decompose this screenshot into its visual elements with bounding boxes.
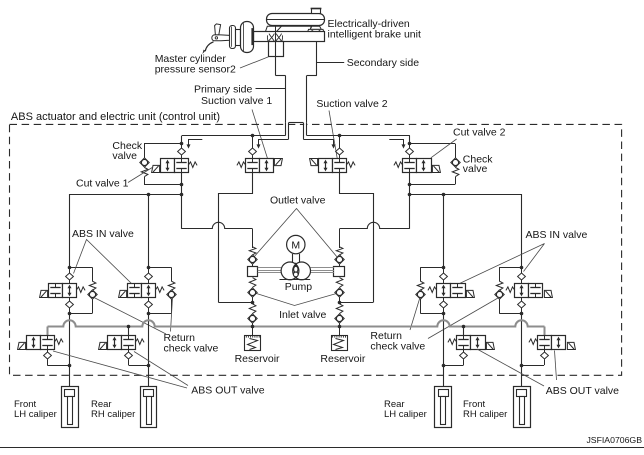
- junction cut valve 2 bottom: [408, 183, 412, 187]
- ABS IN valve V1 ports and return check: [66, 266, 98, 316]
- leader ABS OUT valve left: [53, 351, 188, 388]
- pushrod rod and pivot boss: [212, 35, 230, 41]
- svg-text:JSFIA0706GB: JSFIA0706GB: [586, 435, 642, 445]
- caliper line front RH: [521, 313, 523, 386]
- unit lower body outline: [275, 42, 317, 123]
- check valve C1 (cut valve 1 bypass): [140, 144, 149, 185]
- ABS OUT valve V1 output: [44, 350, 72, 368]
- leader ABS OUT valve right: [477, 349, 557, 386]
- caliper line rear LH: [443, 313, 445, 386]
- reservoir-to-sensor feed line: [275, 26, 277, 42]
- junction suction valve 2 tap: [338, 134, 342, 138]
- svg-text:ABS IN valve: ABS IN valve: [72, 228, 134, 240]
- ABS OUT valve V3 body: [448, 336, 494, 350]
- junction suction valve 1 tap: [251, 134, 255, 138]
- leader Outlet valve: [254, 209, 338, 258]
- ABS IN valve V2 ports and return check: [145, 266, 177, 316]
- label ABS actuator and electric unit (control unit): [11, 111, 220, 123]
- leader Secondary side: [317, 62, 344, 64]
- pressure sensor box: [269, 42, 284, 57]
- cut valve 2 output wire: [409, 173, 411, 229]
- cut valve 1 to outlet valve wire: [182, 222, 253, 228]
- flow arrow at cut valve 1: [187, 140, 203, 149]
- port check diamond above suction valve 2: [336, 136, 344, 159]
- svg-text:LH caliper: LH caliper: [384, 409, 427, 420]
- label Outlet valve: [270, 194, 326, 206]
- label Check valve (right): [463, 153, 494, 175]
- reservoir center sump: [276, 26, 312, 32]
- ABS OUT valve V4 output: [520, 350, 549, 368]
- label Cut valve 1: [76, 178, 129, 190]
- junction reservoir 2 on return bus: [338, 325, 342, 329]
- label Rear LH caliper: [384, 399, 427, 420]
- pump port block right: [334, 267, 345, 277]
- junction suction feed right: [338, 301, 342, 305]
- junction cut valve 1 top: [180, 142, 184, 146]
- check valve bypass top wire (cut valve 2): [410, 143, 455, 145]
- cut valve 1 solenoid valve body: [152, 159, 198, 173]
- svg-text:Reservoir: Reservoir: [320, 353, 365, 365]
- secondary header upper wall: [307, 135, 410, 137]
- svg-text:Cut valve 1: Cut valve 1: [76, 178, 129, 190]
- ABS IN valve 3 supply drop: [443, 194, 445, 267]
- outlet valve check O2: [335, 229, 344, 267]
- svg-text:ABS OUT valve: ABS OUT valve: [191, 385, 264, 397]
- ABS OUT valve V4 body: [529, 336, 576, 350]
- booster end cap (dark): [251, 28, 253, 45]
- label Electrically-driven intelligent brake unit: [328, 18, 421, 41]
- pump piston passages right: [310, 268, 333, 273]
- label Master cylinder pressure sensor2: [155, 53, 236, 76]
- reservoir check R2: [335, 304, 344, 336]
- label Inlet valve: [279, 309, 326, 321]
- leader to pressure sensor: [240, 57, 268, 68]
- flow arrow into suction valve 1: [257, 139, 261, 148]
- motor shaft: [293, 254, 300, 263]
- return manifold gray bus: [48, 320, 545, 335]
- ABS IN valve 2 supply drop: [148, 194, 150, 267]
- motor M1: [287, 235, 305, 253]
- check valve bypass bottom wire (cut valve 2): [410, 184, 455, 186]
- junction left bus / ABS IN 2: [147, 193, 151, 197]
- svg-text:Inlet valve: Inlet valve: [279, 309, 326, 321]
- label Suction valve 1: [201, 95, 272, 107]
- label Reservoir 1: [235, 353, 280, 365]
- svg-text:Reservoir: Reservoir: [235, 353, 280, 365]
- svg-text:ABS OUT valve: ABS OUT valve: [546, 385, 619, 397]
- svg-text:check valve: check valve: [164, 343, 219, 355]
- suction jog link right: [339, 302, 373, 304]
- caliper rear RH: [141, 387, 157, 428]
- booster washer plate: [230, 26, 236, 49]
- caliper rear LH: [435, 387, 452, 428]
- curved leader hook to clevis: [202, 42, 213, 54]
- check valve bypass top wire (cut valve 1): [144, 143, 182, 145]
- booster spacer: [236, 30, 241, 46]
- label Cut valve 2: [453, 127, 506, 139]
- label Check valve (left): [112, 140, 143, 162]
- ABS IN valve 1 supply drop: [69, 194, 71, 267]
- pump eccentric cam: [292, 262, 299, 279]
- suction valve 1 output jog wire: [219, 173, 253, 303]
- svg-text:valve: valve: [463, 163, 488, 175]
- pump base line: [280, 279, 311, 281]
- caliper line front LH: [69, 313, 71, 386]
- leader ABS IN valve right: [460, 244, 545, 284]
- ABS IN valve 4 supply drop: [521, 194, 523, 267]
- svg-text:Suction valve 1: Suction valve 1: [201, 95, 272, 107]
- left pressure bus: [70, 194, 182, 196]
- port check diamond above cut valve 2: [406, 144, 414, 159]
- caliper line rear RH: [148, 313, 150, 386]
- leader Return check valve right: [410, 298, 499, 339]
- ABS IN valve V3 body: [428, 284, 474, 298]
- label ABS IN valve (right): [526, 229, 588, 241]
- junction right bus / ABS IN 3: [442, 193, 446, 197]
- port check diamond above cut valve 1: [178, 144, 186, 159]
- junction cut valve 2 top: [408, 142, 412, 146]
- pump chamber left: [281, 262, 310, 280]
- suction jog link left: [219, 302, 253, 304]
- figure bottom border: [0, 447, 644, 449]
- pump chamber right: [293, 262, 311, 280]
- leader Suction valve 2: [329, 111, 338, 161]
- leader Cut valve 2: [431, 139, 457, 158]
- caliper front RH: [514, 387, 531, 428]
- label Suction valve 2: [316, 98, 387, 110]
- primary pipe walls: [286, 123, 289, 140]
- check valve bypass bottom wire (cut valve 1): [144, 184, 182, 186]
- svg-text:Suction valve 2: Suction valve 2: [316, 98, 387, 110]
- secondary inlet funnel: [307, 29, 324, 33]
- label Front RH caliper: [463, 399, 507, 420]
- ABS IN valve V1 body: [40, 284, 86, 298]
- suction valve 2 solenoid valve body: [310, 159, 355, 173]
- caliper front LH: [62, 387, 79, 428]
- label ABS IN valve (left): [72, 228, 134, 240]
- label Return check valve (left): [164, 332, 219, 355]
- cut valve 1 output wire: [181, 173, 183, 229]
- label Return check valve (right): [370, 330, 425, 353]
- secondary pipe walls: [304, 123, 307, 140]
- port check diamond above suction valve 1: [249, 136, 257, 159]
- ABS IN valve V3 ports and return check: [416, 266, 448, 316]
- svg-text:ABS IN valve: ABS IN valve: [526, 229, 588, 241]
- junction reservoir 1 on return bus: [251, 325, 255, 329]
- reservoir right mount foot: [310, 26, 321, 29]
- reservoir filler cap: [311, 9, 322, 14]
- reservoir 2: [332, 335, 348, 350]
- ABS OUT valve V1 body: [18, 336, 64, 350]
- svg-text:Cut valve 2: Cut valve 2: [453, 127, 506, 139]
- check valve C2 (cut valve 2 bypass): [451, 144, 460, 185]
- cut valve 2 solenoid valve body: [394, 159, 440, 173]
- pump piston passages left: [258, 268, 281, 273]
- pump port block left: [248, 267, 258, 277]
- svg-text:RH caliper: RH caliper: [91, 409, 135, 420]
- ABS OUT valve V2 output: [125, 350, 151, 368]
- brake unit fluid reservoir tank: [266, 14, 325, 26]
- flow arrow into suction valve 2: [332, 139, 336, 148]
- ABS IN valve V4 body: [506, 284, 553, 298]
- reservoir left mount foot: [265, 26, 284, 33]
- ABS OUT valve V2 body: [99, 336, 145, 350]
- leader Return check valve left: [94, 298, 173, 335]
- svg-text:check valve: check valve: [370, 341, 425, 353]
- leader Primary side: [256, 88, 286, 90]
- cut valve 2 to outlet valve wire: [340, 222, 410, 228]
- svg-text:M: M: [291, 240, 300, 252]
- pushrod clevis flag: [215, 24, 221, 35]
- ABS OUT valve 3 supply drop: [462, 325, 466, 336]
- label Secondary side: [347, 57, 420, 69]
- svg-text:Primary side: Primary side: [194, 84, 253, 96]
- secondary header lower wall: [303, 139, 333, 141]
- ABS IN valve V2 body: [119, 284, 165, 298]
- inlet valve check I2: [335, 278, 344, 303]
- inlet valve check I1: [248, 278, 257, 303]
- primary seal boots (crossed curves): [267, 34, 282, 42]
- leader ABS IN valve left: [74, 240, 132, 284]
- flow arrow at cut valve 2: [389, 140, 405, 149]
- primary header upper wall: [182, 135, 286, 137]
- master cylinder body (horizontal barrel): [254, 32, 325, 42]
- label Front LH caliper: [14, 399, 57, 420]
- suction valve 1 solenoid valve body: [237, 159, 283, 173]
- cut valve 2 feed drop: [409, 136, 411, 144]
- svg-text:ABS actuator and electric unit: ABS actuator and electric unit (control …: [11, 111, 220, 123]
- ABS OUT valve V3 output: [442, 350, 468, 368]
- svg-text:Outlet valve: Outlet valve: [270, 194, 326, 206]
- junction suction feed left: [251, 301, 255, 305]
- label Primary side: [194, 84, 253, 96]
- suction valve 2 output jog wire: [340, 173, 374, 303]
- pipe channel white mask: [286, 120, 306, 128]
- ABS IN valve V4 ports and return check: [495, 266, 526, 316]
- svg-text:RH caliper: RH caliper: [463, 409, 507, 420]
- leader Cut valve 1: [128, 167, 153, 183]
- leader Suction valve 1: [252, 110, 268, 161]
- label ABS OUT valve (left): [191, 385, 264, 397]
- label ABS OUT valve (right): [546, 385, 619, 397]
- right pressure bus: [410, 194, 522, 196]
- svg-text:Pump: Pump: [285, 281, 313, 293]
- junction cut valve 1 bottom: [180, 183, 184, 187]
- junction right bus / cut valve 2: [408, 193, 412, 197]
- primary header lower wall: [258, 139, 288, 141]
- outlet valve check O1: [248, 229, 257, 267]
- label Rear RH caliper: [91, 399, 135, 420]
- reservoir 1: [245, 335, 261, 350]
- label Reservoir 2: [320, 353, 365, 365]
- label Pump: [285, 281, 313, 293]
- booster body pill: [241, 22, 254, 53]
- figure code JSFIA0706GB: [586, 435, 642, 445]
- control unit dashed border: [10, 124, 622, 375]
- cut valve 1 feed drop: [181, 136, 183, 144]
- svg-text:intelligent brake unit: intelligent brake unit: [328, 28, 421, 40]
- svg-text:Secondary side: Secondary side: [347, 57, 420, 69]
- junction left bus / cut valve 1: [180, 193, 184, 197]
- svg-text:valve: valve: [112, 150, 137, 162]
- leader Inlet valve: [257, 294, 337, 306]
- ABS OUT valve 2 supply drop: [127, 325, 131, 336]
- reservoir check R1: [248, 304, 257, 336]
- svg-text:pressure sensor2: pressure sensor2: [155, 64, 236, 76]
- svg-text:LH caliper: LH caliper: [14, 409, 57, 420]
